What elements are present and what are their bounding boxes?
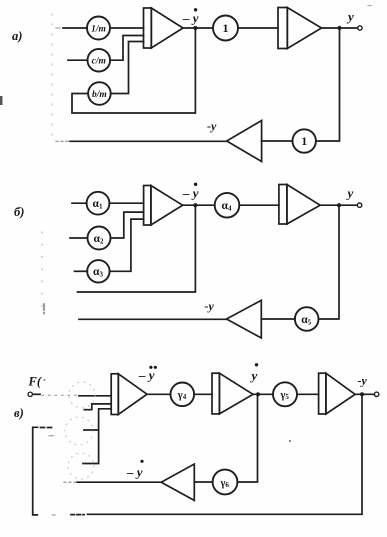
integrator U4 [144,186,183,226]
wire U1 output [183,27,213,29]
svg-text:γ4: γ4 [177,390,187,401]
svg-text:y: y [250,368,258,383]
wire U7 output [147,393,170,395]
label -ydot b [182,183,199,201]
wire 1/m to integrator U1 [110,27,144,29]
svg-text:α4: α4 [222,200,232,212]
wire y feedback down b [319,205,340,319]
coefficient circle c/m [88,49,111,72]
wire alpha5 to inverter U6 [261,318,295,320]
svg-text:α3: α3 [93,266,103,278]
coefficient circle b/m [88,82,111,105]
coefficient circle alpha2 [88,227,111,250]
svg-text:α5: α5 [301,314,311,326]
wire inverter output faint end v [64,481,76,483]
wire ydot feedback down to gamma6 [238,394,258,482]
svg-text:б): б) [14,205,24,219]
wire y feedback down [316,28,340,141]
wire gamma6 to inverter U10 [194,481,212,483]
wire alpha2 to integrator U4 [111,212,144,238]
svg-text:1/m: 1/m [91,25,106,35]
svg-text:– y: – y [182,186,199,201]
svg-text:y: y [346,186,354,201]
wire circle to inverter U3 [262,140,293,142]
coefficient circle gamma4 [171,383,195,407]
integrator U1 [144,8,184,48]
integrator U8 [212,373,253,414]
wire c/m to integrator U1 [110,36,143,61]
svg-text:F(: F( [28,375,42,389]
wire input stub to alpha2 [70,237,88,239]
inverter U6 [227,300,262,338]
svg-text:-y: -y [358,374,368,388]
svg-text:– y: – y [138,368,155,383]
node ydot junction [256,392,260,396]
noise speck after F [44,379,46,381]
terminal y b [357,203,361,207]
wire input stub to c/m [68,59,88,61]
ghost dotted circle 3 [68,453,94,479]
wire input stub to alpha1 [72,202,87,204]
wire alpha1 to integrator U4 [109,202,143,204]
svg-text:1: 1 [223,21,229,35]
label -ydot v [126,460,144,480]
svg-text:γ6: γ6 [219,478,229,489]
integrator U9 [319,373,356,414]
integrator U2 [278,8,322,49]
node -y junction v [360,392,364,396]
svg-text:– y: – y [182,11,199,26]
noise speck v [289,440,291,442]
node y junction b [337,203,341,207]
coefficient circle 1 [213,16,238,41]
noise exclamation b [43,304,45,314]
wire input 1 to integrator U7 [79,395,111,397]
label -yddot [138,366,157,383]
wire F terminal stub [34,393,41,395]
wire alpha4 to integrator U5 [239,204,279,206]
wire to integrator U2 [238,27,278,29]
wire input 2 staircase to integrator U7 [84,404,111,410]
wire feedback -ydot node to b/m [72,28,195,113]
svg-text:а): а) [12,29,22,43]
svg-text:y: y [346,9,354,24]
wire alpha3 to integrator U4 [110,219,144,271]
wire inverter output left b [79,318,227,320]
coefficient circle alpha1 [87,192,110,215]
wire gamma4 to integrator U8 [194,393,212,395]
noise speck bottom left [53,514,56,516]
label -ydot [182,8,199,25]
svg-text:-y: -y [207,119,217,133]
wire left bracket v [33,427,38,515]
noise speck bracket mid [49,435,54,437]
wire left bracket top stub dashed [34,426,54,428]
integrator U5 [279,185,320,225]
wire input stub to alpha3 [75,270,88,272]
label ydot [250,363,259,383]
noise speck top right [368,5,371,7]
integrator U7 [111,374,147,415]
wire -y feedback dashed left v [71,514,84,516]
node y junction [337,26,341,30]
ghost dotted circle 2 [65,417,93,445]
svg-text:α2: α2 [94,233,104,245]
coefficient circle 1/m [87,17,110,40]
wire feedback -ydot to bottom left b [78,205,196,292]
svg-text:b/m: b/m [92,90,107,100]
svg-text:в): в) [14,406,24,420]
wire b/m to integrator U1 [111,42,144,94]
svg-text:α1: α1 [93,198,103,210]
noise edge mark left [0,96,3,105]
terminal F input [28,392,32,396]
coefficient circle gamma6 [213,470,238,495]
wire inverter output left v [77,481,161,483]
coefficient circle alpha5 [295,307,319,331]
wire F dotted to integrator U7 [42,394,78,396]
svg-text:c/m: c/m [92,57,106,67]
svg-text:-y: -y [205,299,215,313]
inverter U10 [161,464,194,500]
inverter U3 [227,121,262,162]
coefficient circle 1 feedback [293,129,316,152]
wire U4 output [183,204,215,206]
node -ydot junction b [193,203,197,207]
coefficient circle gamma5 [273,382,297,406]
wire inverter output left [70,140,227,142]
svg-text:– y: – y [126,465,143,480]
wire input stub to 1/m [63,27,87,29]
coefficient circle alpha3 [87,260,109,282]
coefficient circle alpha4 [215,193,240,218]
terminal y [358,26,362,30]
terminal -y v [374,392,378,396]
noise speck left of 1/m stub [56,27,60,29]
wire U5 output [320,204,357,206]
node -ydot junction [193,26,197,30]
ghost dotted circle 1 [69,382,95,408]
wire gamma5 to integrator U9 [297,393,319,395]
wire -y feedback down right v [88,394,363,514]
svg-text:1: 1 [301,134,307,148]
wire U9 output [355,393,374,395]
wire U2 output [322,27,358,29]
svg-text:γ5: γ5 [279,390,289,401]
noise left margin column b [41,232,43,310]
noise left margin column a [51,14,53,138]
wire U8 output [253,393,273,395]
wire faint left end [56,140,69,142]
wire input 3 riser to integrator U7 [83,409,111,464]
